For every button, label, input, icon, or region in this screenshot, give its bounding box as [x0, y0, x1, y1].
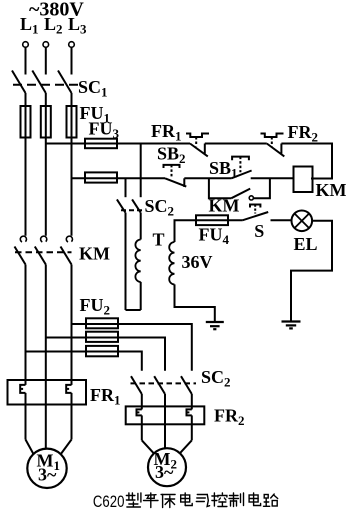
heater element FR1 phase 1 — [20, 385, 25, 393]
thermal element FR1 — [186, 134, 209, 147]
label FU4 — [199, 225, 230, 248]
char che — [144, 493, 159, 508]
coil KM — [294, 167, 313, 193]
label FU2 — [80, 295, 111, 318]
fuse FU2 element 2 — [86, 332, 118, 342]
wire control line 1 (L2 tap to FR1) — [46, 143, 190, 145]
label FU1 — [80, 103, 111, 126]
wire L1 tap to FU2 fuse 3 — [26, 351, 119, 353]
wire L3 tap to FU2 fuse 1 — [72, 323, 119, 325]
wire SC2 pole3 down — [191, 394, 193, 409]
wire control line 2 (L3 tap to SB2) — [72, 177, 166, 179]
wire L3 drop — [71, 47, 73, 74]
contact FR2 blade — [267, 144, 285, 157]
wire phase L2 lower vertical — [45, 265, 47, 449]
svg-text:S: S — [254, 221, 264, 241]
wire SC2 pole1 down — [125, 213, 127, 310]
wire SB2 to SB1 — [184, 177, 231, 179]
svg-text:KM: KM — [316, 180, 347, 200]
svg-text:C620: C620 — [93, 492, 125, 511]
contactor KM main pole 2 fixed contact arc — [41, 236, 47, 242]
svg-text:SC2: SC2 — [145, 196, 175, 219]
svg-text:3~: 3~ — [38, 465, 57, 485]
transformer T secondary winding — [169, 242, 174, 284]
wire secondary bottom — [175, 284, 215, 322]
svg-text:FU3: FU3 — [89, 119, 120, 142]
label KM (main contacts) — [79, 244, 110, 264]
ground (lamp circuit) — [282, 322, 301, 329]
label SC2 (lower) — [201, 367, 231, 390]
contact FR1 blade — [190, 144, 208, 157]
ground (transformer secondary) — [206, 322, 224, 329]
lamp EL — [292, 211, 313, 232]
wire L1 drop — [25, 47, 27, 74]
fuse FU2 element 3 — [86, 346, 118, 356]
label FR2 (heater) — [214, 406, 245, 429]
pushbutton SB1 blade (NO) — [231, 171, 251, 179]
label KM (aux contact) — [209, 196, 240, 216]
switch SC1 pole 3 blade — [58, 71, 72, 94]
switch SC1 pole 2 blade — [32, 71, 46, 94]
svg-text:T: T — [153, 230, 165, 250]
terminal L2 — [43, 42, 49, 48]
label 36V — [182, 252, 213, 272]
switch SC2 lower linkage (dashed) — [131, 382, 197, 384]
char kong — [212, 493, 227, 507]
switch SC2 lower pole 3 blade — [181, 376, 192, 394]
contactor KM main pole 3 blade — [61, 247, 72, 265]
wire phase L3 vertical — [71, 93, 73, 236]
wire M2 lead 2 — [164, 394, 166, 449]
wire FU2 fuse3 to SC2 pole 1 — [118, 352, 142, 371]
fuse FU1 element 1 — [21, 106, 31, 138]
label ~380V — [29, 0, 84, 21]
wire lamp to ground — [291, 221, 332, 321]
svg-text:3~: 3~ — [155, 462, 174, 482]
label SB1 — [209, 158, 238, 181]
label S — [254, 221, 264, 241]
wire phase L3 lower vertical — [71, 265, 73, 385]
label SB2 — [157, 144, 186, 167]
fuse FU2 element 1 — [86, 318, 118, 328]
wire FU2 fuse2 to SC2 pole 2 — [118, 338, 165, 371]
pushbutton SB2 fixed stub — [183, 178, 185, 187]
motor M1 — [27, 449, 66, 488]
label SC2 (upper) — [145, 196, 175, 219]
wire SB1 to KM coil left side — [251, 177, 294, 179]
svg-text:KM: KM — [209, 196, 240, 216]
label KM (coil) — [316, 180, 347, 200]
wire SC2 pole2 down to primary — [140, 213, 142, 240]
wire S to lamp — [271, 219, 292, 221]
svg-text:FR2: FR2 — [288, 122, 319, 145]
wire M1 lead 1 — [26, 393, 34, 455]
title CJK glyphs (drawn) — [126, 493, 277, 508]
svg-text:EL: EL — [294, 234, 318, 254]
pushbutton SB2 actuator — [164, 165, 180, 177]
char chuang — [161, 495, 175, 508]
svg-text:FU2: FU2 — [80, 295, 111, 318]
node L2 label — [44, 14, 63, 37]
motor M2 — [148, 448, 186, 486]
pushbutton SB2 blade — [165, 178, 186, 186]
switch SC2 upper pole 1 blade — [117, 199, 126, 212]
switch SC1 linkage (dashed) — [13, 84, 78, 86]
terminal L1 — [23, 42, 29, 48]
wire primary bottom — [126, 282, 141, 310]
wire SC2 pole1 to motor branch — [141, 394, 143, 409]
svg-text:SC2: SC2 — [201, 367, 231, 390]
wire phase L1 lower vertical — [25, 265, 27, 385]
label SC1 — [78, 77, 108, 100]
contact KM auxiliary fixed terminal — [249, 196, 253, 200]
char qi — [196, 495, 209, 507]
thermal relay FR1 box — [8, 380, 87, 405]
label FR1 (heater) — [90, 385, 121, 408]
char zhi — [229, 493, 244, 507]
wire KM aux branch down-left — [209, 178, 232, 198]
switch SC2 upper pole 2 blade — [132, 199, 141, 212]
wire M1 lead 3 — [60, 393, 71, 455]
contactor KM main pole 3 fixed contact arc — [66, 236, 72, 242]
fuse FU1 element 3 — [67, 106, 77, 138]
label FU3 — [89, 119, 120, 142]
svg-text:SC1: SC1 — [78, 77, 108, 100]
title text C620 — [93, 492, 125, 511]
wire secondary top to FU4 — [175, 220, 243, 242]
label EL — [294, 234, 318, 254]
switch S actuator — [250, 205, 260, 214]
switch S blade — [242, 212, 268, 220]
svg-text:FR2: FR2 — [214, 406, 245, 429]
node L3 label — [68, 14, 87, 37]
svg-text:KM: KM — [79, 244, 110, 264]
wire L2 drop — [45, 47, 47, 74]
char lu — [264, 494, 278, 506]
wire KM aux up to line 2 — [253, 178, 270, 198]
thermal element FR2 — [261, 134, 284, 147]
svg-text:L3: L3 — [68, 14, 87, 37]
label T — [153, 230, 165, 250]
svg-text:FU4: FU4 — [199, 225, 230, 248]
wire M2 lead 3 — [180, 415, 192, 453]
contact KM auxiliary blade (NO) — [231, 189, 250, 199]
fuse FU4 — [196, 215, 228, 225]
wire M2 lead 1 — [142, 415, 154, 453]
wire L2 tap to FU2 fuse 2 — [46, 337, 118, 339]
switch SC2 upper linkage (dashed) — [121, 209, 143, 211]
contactor KM main pole 1 blade — [15, 247, 26, 265]
heater element FR2 phase 1 — [137, 409, 142, 415]
wire phase L2 vertical — [45, 93, 47, 236]
wire FR1 to FR2 — [205, 143, 267, 145]
switch SC2 upper pole 1 top wire — [125, 178, 127, 197]
contactor KM main pole 1 fixed contact arc — [20, 236, 26, 242]
switch SC2 lower pole 1 blade — [131, 376, 142, 394]
label FR1 — [151, 121, 182, 144]
heater element FR1 phase 3 — [66, 385, 71, 393]
char dian 2 — [249, 493, 261, 506]
svg-text:SB1: SB1 — [209, 158, 238, 181]
char dian — [181, 493, 193, 506]
contact FR2 fixed stub — [280, 144, 282, 154]
svg-text:SB2: SB2 — [157, 144, 186, 167]
svg-text:FR1: FR1 — [151, 121, 182, 144]
transformer T primary winding — [135, 240, 140, 282]
fuse FU1 element 2 — [41, 106, 51, 138]
fuse FU3 element 1 — [85, 139, 117, 149]
contact FR1 fixed stub — [204, 144, 206, 154]
wire phase L1 vertical — [25, 93, 27, 236]
wire FR2 to KM coil right side — [281, 144, 332, 179]
node L1 label — [20, 14, 39, 37]
pushbutton SB1 actuator — [232, 157, 249, 173]
switch SC2 lower pole 2 blade — [154, 376, 165, 394]
svg-text:FR1: FR1 — [90, 385, 121, 408]
switch SC2 upper pole 2 top wire — [140, 144, 142, 198]
terminal L3 — [69, 42, 75, 48]
switch SC1 pole 1 blade — [12, 71, 26, 94]
fuse FU3 element 2 — [85, 172, 117, 182]
heater element FR2 phase 3 — [187, 409, 192, 415]
svg-text:36V: 36V — [182, 252, 213, 272]
thermal relay FR2 box — [126, 406, 205, 424]
char xing — [126, 493, 140, 507]
contactor KM main pole 2 blade — [35, 247, 46, 265]
label FR2 — [288, 122, 319, 145]
wire FU2 fuse1 to SC2 pole 3 — [118, 324, 192, 371]
contactor KM linkage (dashed) — [15, 251, 72, 253]
